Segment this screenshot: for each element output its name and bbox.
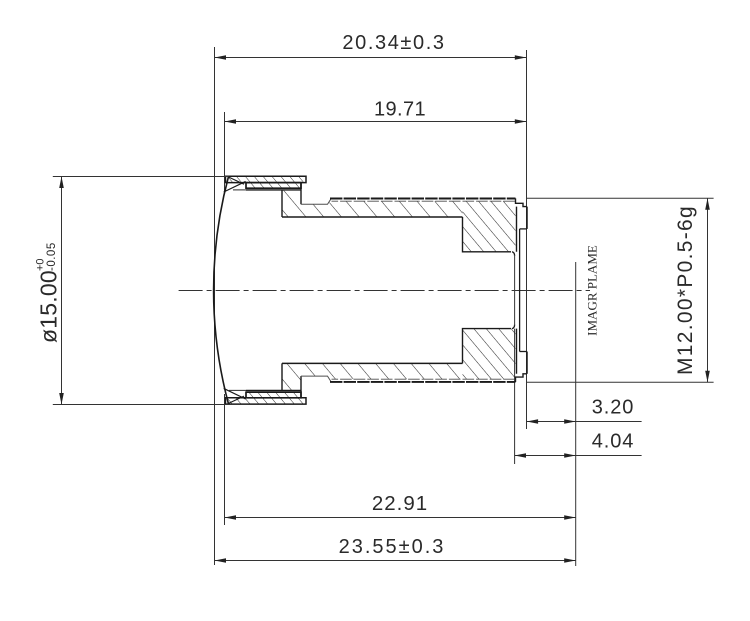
hatch retaining ring bar1 top <box>226 176 307 182</box>
retaining ring outline top <box>226 176 307 188</box>
dimension phi15 <box>35 177 229 405</box>
rear counterbore face <box>519 229 521 352</box>
bore line bottom <box>282 362 463 364</box>
svg-text:-0.05: -0.05 <box>46 242 58 271</box>
dimension 3.20 <box>527 397 642 424</box>
svg-text:ø15.00: ø15.00 <box>36 270 62 343</box>
hatch rear block bottom <box>463 329 516 380</box>
thread crest bottom <box>330 381 516 383</box>
thread root top <box>332 200 516 202</box>
svg-text:19.71: 19.71 <box>374 99 426 121</box>
lens edge / nose top line <box>233 189 301 191</box>
dimension 22.91 <box>225 492 576 520</box>
extension line barrel rear x=526.6 <box>526 50 528 429</box>
hatch main barrel wall bottom <box>282 363 463 390</box>
svg-text:3.20: 3.20 <box>592 397 635 419</box>
lens bevel top <box>224 177 246 192</box>
dimension 4.04 <box>515 431 642 458</box>
extension line barrel front x=224.5 <box>224 112 226 525</box>
rear block outline top <box>463 207 517 252</box>
extension line 4.04 x=514.8 <box>514 329 516 464</box>
svg-text:IMAGR PLAME: IMAGR PLAME <box>585 245 600 336</box>
hatch retaining ring bar1 bottom <box>226 398 307 404</box>
dimension 19.71 <box>225 99 527 124</box>
hatch retaining ring bar2 bottom <box>246 392 301 398</box>
dimension M12 thread: extension lines <box>527 198 714 382</box>
rear aperture wall <box>512 252 515 329</box>
svg-text:+0: +0 <box>35 258 47 271</box>
svg-text:20.34±0.3: 20.34±0.3 <box>342 32 445 54</box>
thread root bottom <box>332 378 516 380</box>
bore line top <box>282 216 463 218</box>
hatch main barrel wall top <box>282 190 463 217</box>
rear shelf top <box>520 228 527 230</box>
thread crest top <box>330 198 516 200</box>
hatch rear block top <box>463 201 516 252</box>
lens bevel bottom <box>224 388 246 403</box>
image plane label <box>585 245 600 336</box>
dimension 20.34 <box>215 32 527 60</box>
barrel nose outline bottom <box>282 363 331 397</box>
svg-text:23.55±0.3: 23.55±0.3 <box>339 536 446 558</box>
svg-text:4.04: 4.04 <box>592 431 635 453</box>
rear end steps top <box>516 198 528 206</box>
svg-text:22.91: 22.91 <box>372 492 428 515</box>
extension line lens vertex x=214.5 <box>214 47 216 565</box>
rear block outline bottom <box>463 329 517 374</box>
hatch retaining ring bar2 top <box>246 183 301 189</box>
image plane line x=575.7 <box>575 262 577 566</box>
lens edge / nose bottom line <box>229 389 301 391</box>
retaining ring outline bottom <box>226 392 307 404</box>
svg-text:M12.00*P0.5-6g: M12.00*P0.5-6g <box>674 205 697 375</box>
rear face bottom segment <box>526 352 528 374</box>
barrel nose outline top <box>282 183 331 217</box>
rear shelf bottom <box>520 351 527 353</box>
rear face top segment <box>526 207 528 229</box>
dimension 23.55 <box>215 536 576 563</box>
center line <box>179 290 590 292</box>
rear end steps bottom <box>516 374 528 382</box>
lens front curve <box>214 177 229 405</box>
